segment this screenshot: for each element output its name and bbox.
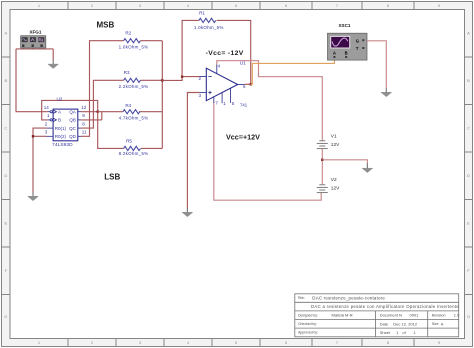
svg-text:1.0kOhm_5%: 1.0kOhm_5% <box>194 25 224 30</box>
svg-text:12V: 12V <box>331 142 340 148</box>
svg-text:R0(2): R0(2) <box>55 134 67 139</box>
junction inverting node <box>181 75 183 77</box>
svg-text:Dec 12, 2012: Dec 12, 2012 <box>393 321 418 326</box>
junction R0 node <box>32 135 34 137</box>
svg-text:B: B <box>4 78 7 83</box>
svg-text:E: E <box>467 221 470 226</box>
wire XFG1 output bus <box>16 48 53 61</box>
svg-text:0001: 0001 <box>410 313 420 318</box>
svg-text:-Vcc= -12V: -Vcc= -12V <box>206 50 244 57</box>
svg-text:V2: V2 <box>331 177 337 183</box>
svg-text:Vcc=+12V: Vcc=+12V <box>226 132 260 141</box>
svg-text:MSB: MSB <box>97 20 115 29</box>
ground (below XFG1) <box>48 60 59 68</box>
svg-text:G: G <box>356 38 359 43</box>
svg-text:Title:: Title: <box>298 296 305 300</box>
wire output to oscilloscope A <box>251 60 335 84</box>
svg-text:1.0: 1.0 <box>454 313 460 318</box>
wire oscilloscope G to ground <box>367 41 386 89</box>
svg-text:R3: R3 <box>124 70 130 75</box>
svg-text:T: T <box>356 46 359 51</box>
svg-text:14: 14 <box>44 105 50 110</box>
svg-text:B: B <box>58 118 61 123</box>
svg-text:Size: Size <box>432 322 439 326</box>
title block <box>295 294 459 337</box>
svg-text:XSC1: XSC1 <box>338 23 350 28</box>
svg-text:741: 741 <box>240 102 248 107</box>
wire battery midpoint to ground <box>322 160 367 164</box>
svg-text:Checked by:: Checked by: <box>298 322 317 326</box>
wire op-amp noninverting to ground <box>187 93 199 209</box>
svg-text:DAC resistenze_pesate-contator: DAC resistenze_pesate-contatore <box>312 295 385 300</box>
wire op-amp V- supply (pin 4) <box>217 61 322 141</box>
wire XFG1 plus to U2 pin14 <box>16 49 48 112</box>
svg-text:E: E <box>4 221 7 226</box>
svg-text:U2: U2 <box>56 97 62 102</box>
wire summing bus <box>139 41 162 149</box>
svg-text:V1: V1 <box>331 133 337 139</box>
svg-text:12V: 12V <box>331 186 340 192</box>
svg-text:D: D <box>467 173 470 178</box>
svg-text:R0(1): R0(1) <box>55 126 67 131</box>
svg-text:A: A <box>441 321 444 326</box>
resistor R1 <box>194 10 224 29</box>
svg-text:8.2kOhm_5%: 8.2kOhm_5% <box>119 151 149 156</box>
junction bus node <box>161 79 163 81</box>
svg-text:Approved by:: Approved by: <box>298 331 318 335</box>
svg-text:QC: QC <box>69 126 77 131</box>
svg-text:A: A <box>333 50 336 55</box>
battery V2 <box>317 177 340 192</box>
resistor R3 <box>119 70 149 89</box>
svg-text:LSB: LSB <box>104 172 120 181</box>
svg-text:A: A <box>4 31 7 36</box>
svg-text:A: A <box>58 109 61 114</box>
svg-text:1.0kOhm_5%: 1.0kOhm_5% <box>119 45 149 50</box>
junction QA node <box>97 111 99 113</box>
wire QA cascade to B input <box>42 100 98 120</box>
svg-text:QD: QD <box>69 134 77 139</box>
svg-text:12: 12 <box>81 105 87 110</box>
svg-text:Revision: Revision <box>432 314 446 318</box>
wire QA to R5 <box>98 112 124 149</box>
svg-text:G: G <box>4 314 7 319</box>
wire U2 R0 inputs tie <box>33 128 47 193</box>
function generator XFG1 <box>21 29 46 48</box>
wire op-amp output <box>244 83 251 85</box>
op-amp U1 <box>198 60 247 107</box>
svg-text:Sheet: Sheet <box>380 330 391 335</box>
svg-text:DAC a resistenze pesate con Am: DAC a resistenze pesate con Amplificator… <box>311 304 459 309</box>
ground (oscilloscope) <box>385 88 387 92</box>
svg-text:B: B <box>345 50 348 55</box>
resistor R4 <box>119 103 149 120</box>
svg-text:XFG1: XFG1 <box>29 29 41 34</box>
ground (below U2 R0) <box>32 193 34 197</box>
oscilloscope XSC1 <box>328 23 368 60</box>
svg-text:QB: QB <box>69 118 76 123</box>
wire QD to R2 <box>81 41 124 137</box>
svg-text:11: 11 <box>82 130 87 135</box>
wire QC to R3 <box>81 80 124 128</box>
resistor R2 <box>119 31 149 50</box>
svg-text:R4: R4 <box>125 103 131 108</box>
svg-text:4.7kOhm_5%: 4.7kOhm_5% <box>119 115 149 120</box>
junction output node <box>250 83 252 85</box>
resistor R5 <box>119 138 149 156</box>
wire bus to op-amp inverting input <box>162 77 199 81</box>
junction battery midpoint <box>321 159 323 161</box>
wire QB to R4 <box>81 112 123 120</box>
svg-text:G: G <box>467 314 470 319</box>
svg-text:Designed by:: Designed by: <box>298 313 318 317</box>
svg-text:R5: R5 <box>126 138 132 143</box>
svg-text:B: B <box>467 78 470 83</box>
svg-text:R2: R2 <box>125 31 131 36</box>
svg-text:R1: R1 <box>199 10 205 15</box>
svg-text:A: A <box>467 31 470 36</box>
svg-text:C: C <box>4 126 7 131</box>
svg-text:C: C <box>467 126 470 131</box>
svg-text:U1: U1 <box>240 60 246 65</box>
svg-text:Malizia M-R: Malizia M-R <box>332 313 353 318</box>
svg-text:Document N: Document N <box>380 313 402 318</box>
svg-text:2.2kOhm_5%: 2.2kOhm_5% <box>119 84 149 89</box>
ground (op-amp noninverting) <box>186 208 188 212</box>
counter U2 74LS93D <box>44 97 87 149</box>
svg-text:Date: Date <box>380 321 389 326</box>
wire op-amp V+ supply (pin 7) <box>214 102 321 200</box>
svg-text:74LS93D: 74LS93D <box>52 142 73 148</box>
wire R1 feedback <box>182 20 251 84</box>
ground (battery midpoint) <box>366 163 368 168</box>
wire battery stack <box>321 149 323 185</box>
svg-text:QA: QA <box>69 109 76 114</box>
battery V1 <box>317 133 340 148</box>
svg-text:D: D <box>4 173 7 178</box>
